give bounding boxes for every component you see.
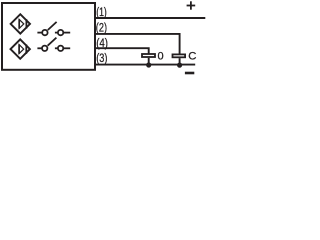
switch S2 left contact circle [42, 46, 47, 51]
svg-text:(4): (4) [96, 36, 108, 50]
diode D1 triangle [19, 19, 24, 28]
diode D1 anode base bar [18, 19, 20, 28]
switch S1 right lead [64, 32, 71, 34]
svg-text:(1): (1) [96, 5, 107, 19]
diode D2 diamond [11, 39, 30, 58]
load C box [173, 54, 186, 57]
wire terminal 2 [96, 34, 180, 54]
switch S2 left lead [37, 47, 41, 49]
svg-text:(2): (2) [96, 21, 107, 35]
plus terminal symbol [187, 5, 196, 7]
switch S1 lever [48, 22, 57, 30]
wire terminal 4 [96, 48, 149, 53]
diode D1 cathode bar [25, 19, 27, 28]
svg-text:0: 0 [158, 50, 164, 62]
switch S1 right contact left stub [55, 32, 58, 34]
switch S2 right lead [64, 47, 71, 49]
switch S1 left contact circle [42, 30, 47, 35]
junction dot at load C [177, 63, 182, 68]
diode D1 diamond [11, 14, 30, 33]
diode D2 triangle [19, 45, 24, 54]
switch S1 left lead [37, 32, 41, 34]
wire load O to line 3 [148, 58, 150, 65]
minus terminal symbol [185, 72, 194, 75]
wire terminal 1 [96, 17, 205, 19]
svg-text:C: C [188, 50, 196, 62]
switch S2 right contact left stub [55, 47, 58, 49]
wire terminal 3 [96, 64, 195, 66]
diode D2 cathode bar [25, 44, 27, 53]
load O box [142, 54, 155, 57]
wire load C to line 3 [179, 58, 181, 64]
junction dot at load O [146, 62, 151, 67]
diode D2 anode base bar [18, 44, 20, 53]
svg-text:(3): (3) [96, 51, 107, 65]
switch S1 right contact circle [58, 30, 63, 35]
switch S2 lever [48, 38, 57, 46]
sensor enclosure box [2, 3, 95, 70]
switch S2 right contact circle [58, 46, 63, 51]
